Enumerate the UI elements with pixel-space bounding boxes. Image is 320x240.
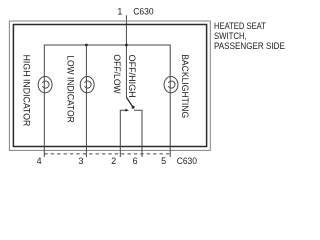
svg-text:LOW INDICATOR: LOW INDICATOR — [66, 55, 76, 123]
svg-text:3: 3 — [78, 156, 83, 166]
switch contact OFF/LOW with arrow — [120, 110, 126, 157]
switch assembly inner border — [13, 25, 206, 147]
wire: bus branch to low indicator lamp — [85, 45, 87, 77]
svg-text:6: 6 — [133, 156, 138, 166]
switch contact OFF/HIGH — [134, 110, 142, 157]
svg-text:C630: C630 — [133, 7, 153, 17]
svg-text:1: 1 — [117, 7, 122, 17]
junction: bus / low indicator branch — [85, 44, 88, 47]
wire: supply bus with corners down to high indicator and backlighting lamps — [44, 45, 170, 77]
wire: low indicator lamp to pin 3 — [85, 93, 87, 157]
switch assembly outer border — [9, 21, 210, 150]
lamp: backlighting (circle with filament loop) — [164, 77, 178, 93]
svg-text:OFF/LOW: OFF/LOW — [112, 54, 122, 94]
wire: pin 1 to switch common — [125, 15, 127, 97]
svg-text:OFF/HIGH: OFF/HIGH — [127, 55, 137, 98]
svg-text:5: 5 — [161, 156, 166, 166]
svg-text:BACKLIGHTING: BACKLIGHTING — [180, 54, 190, 118]
svg-text:HIGH INDICATOR: HIGH INDICATOR — [22, 55, 32, 127]
wire: high indicator lamp to pin 4 — [43, 93, 45, 157]
switch blade (common from pin 1) — [126, 97, 133, 108]
connector C630 bottom dashed line — [44, 153, 170, 155]
wire: backlighting lamp to pin 5 — [169, 93, 171, 157]
component title: heated seat switch, passenger side — [214, 22, 266, 31]
lamp: low indicator (circle with filament loop) — [80, 77, 94, 93]
junction: bus / pin-1 wire — [125, 44, 128, 47]
svg-text:4: 4 — [37, 156, 42, 166]
lamp: high indicator (circle with filament loop) — [38, 77, 52, 93]
svg-text:2: 2 — [111, 156, 116, 166]
svg-text:C630: C630 — [177, 156, 197, 166]
